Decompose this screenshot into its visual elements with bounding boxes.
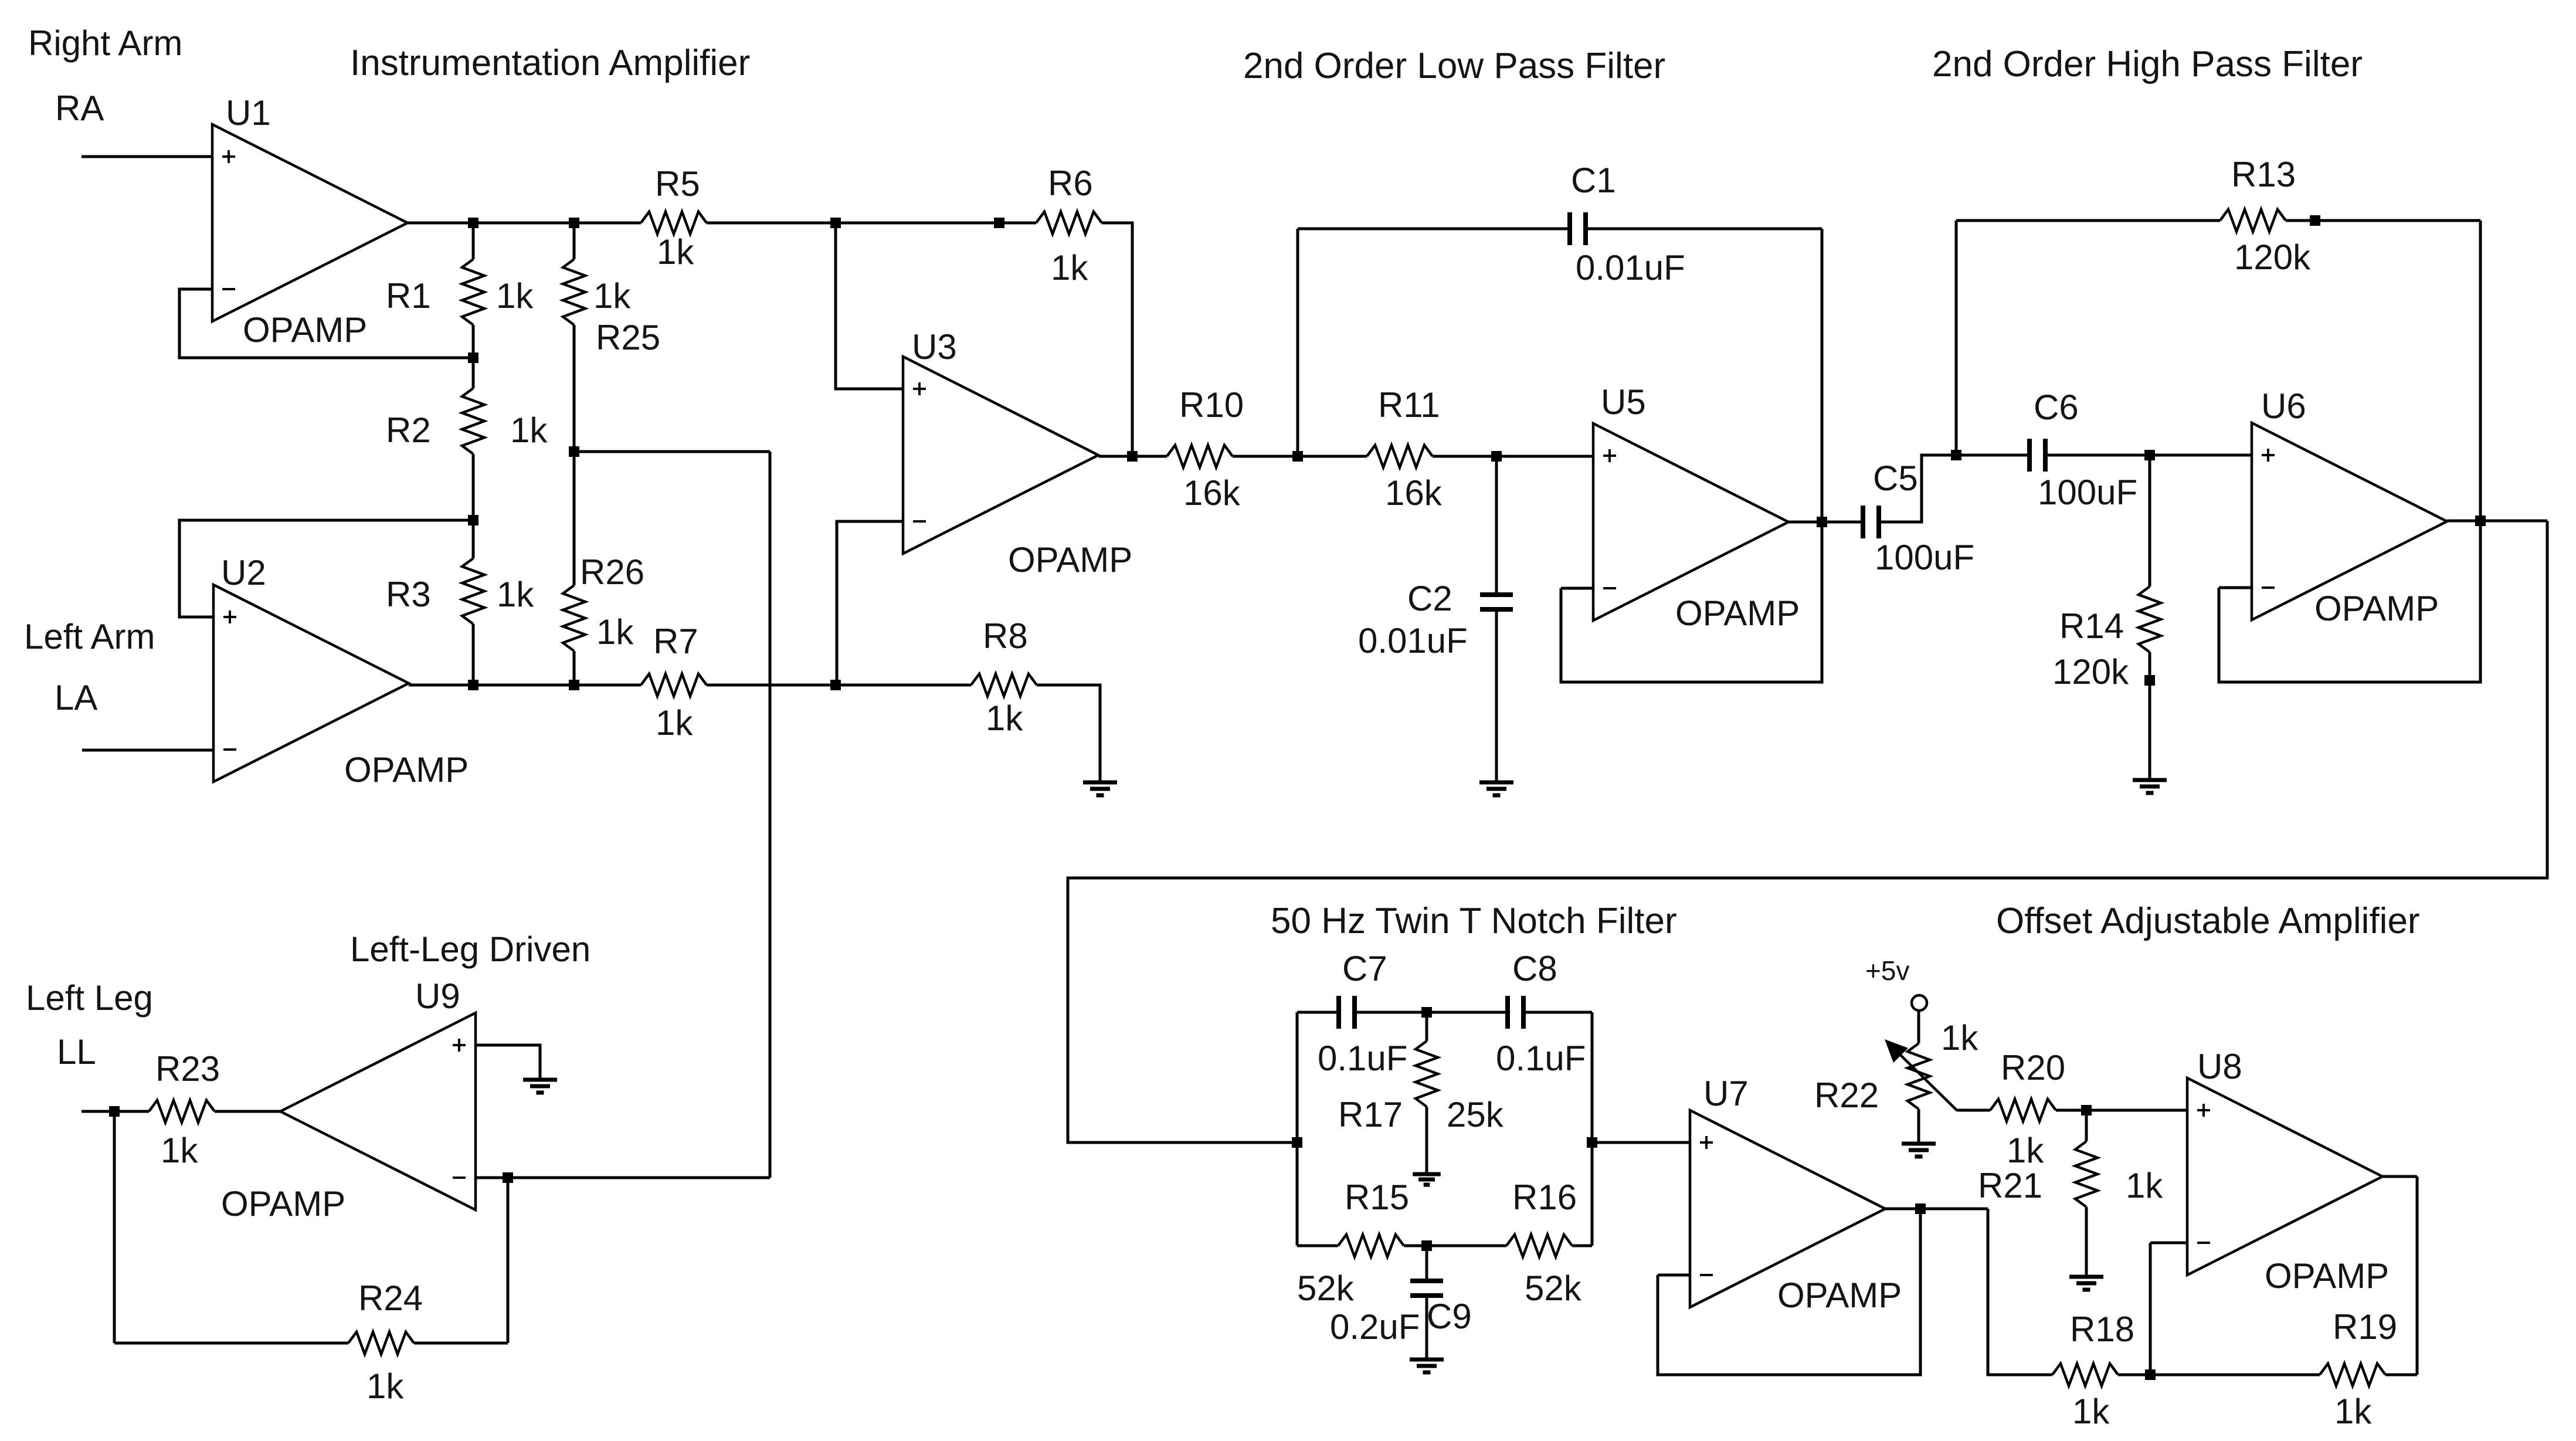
wire U8 output bbox=[2382, 1175, 2417, 1178]
svg-text:R26: R26 bbox=[580, 552, 644, 592]
junction LL / R24 branch bbox=[109, 1106, 120, 1117]
wire R20 to U8 bbox=[2056, 1109, 2187, 1112]
svg-text:1k: 1k bbox=[2007, 1131, 2044, 1170]
wire R22 wiper to R20 bbox=[1957, 1109, 1990, 1112]
wire U7 out down to R18 bbox=[1988, 1209, 2052, 1375]
junction R5/U3+ branch bbox=[830, 218, 841, 228]
wire R26 top stem bbox=[573, 452, 576, 585]
wire U2 plus feedback bbox=[179, 520, 473, 617]
wire R14 top stem bbox=[2149, 455, 2151, 586]
junction R1/R2 feedback bbox=[468, 352, 478, 363]
wire R22 to ground bbox=[1917, 1109, 1920, 1144]
wire U5 feedback bbox=[1561, 521, 1822, 682]
wire C9 stem top bbox=[1426, 1246, 1428, 1281]
svg-text:R7: R7 bbox=[653, 622, 698, 661]
svg-text:Left Leg: Left Leg bbox=[26, 978, 153, 1018]
wire U5 output bbox=[1788, 521, 1863, 524]
resistor R16 bbox=[1506, 1235, 1572, 1257]
svg-text:R24: R24 bbox=[358, 1279, 423, 1318]
svg-text:120k: 120k bbox=[2234, 238, 2311, 277]
svg-text:1k: 1k bbox=[1941, 1018, 1978, 1057]
resistor R11 bbox=[1367, 445, 1433, 467]
op-amp U6 bbox=[2252, 423, 2447, 620]
wire R10 to R11 bbox=[1233, 455, 1367, 458]
resistor R3 bbox=[462, 558, 484, 624]
ground R17 bbox=[1413, 1174, 1441, 1185]
svg-text:OPAMP: OPAMP bbox=[2265, 1256, 2389, 1296]
ground R21 bbox=[2069, 1277, 2103, 1290]
wire notch bottom right bbox=[1572, 1245, 1592, 1247]
wire U6 feedback bbox=[2219, 521, 2480, 682]
wire R15 to R16 bbox=[1404, 1245, 1506, 1247]
resistor R18 bbox=[2052, 1364, 2118, 1386]
resistor R13 bbox=[2220, 209, 2286, 232]
wire LL input bbox=[82, 1110, 149, 1113]
wire HPF out down bbox=[1068, 521, 2547, 1142]
svg-text:R14: R14 bbox=[2059, 606, 2124, 646]
svg-text:R11: R11 bbox=[1378, 385, 1440, 425]
svg-text:1k: 1k bbox=[596, 612, 634, 652]
resistor R25 bbox=[563, 259, 585, 325]
svg-text:52k: 52k bbox=[1297, 1269, 1355, 1308]
wire R19 right bbox=[2385, 1374, 2417, 1376]
svg-text:C5: C5 bbox=[1873, 459, 1918, 498]
svg-text:U3: U3 bbox=[912, 327, 957, 367]
junction C2 tap bbox=[1491, 451, 1502, 462]
wire +5v to R22 bbox=[1917, 1012, 1920, 1043]
svg-text:1k: 1k bbox=[657, 232, 694, 272]
wire R3 bottom stem bbox=[472, 624, 475, 685]
svg-text:R15: R15 bbox=[1345, 1178, 1409, 1217]
wire R13 right bbox=[2286, 219, 2480, 222]
wire R21 to ground bbox=[2085, 1207, 2088, 1277]
wire R1-R2 bbox=[472, 325, 475, 388]
resistor R8 bbox=[971, 674, 1037, 696]
svg-text:OPAMP: OPAMP bbox=[1675, 594, 1800, 633]
wire R24 row left bbox=[114, 1342, 348, 1345]
svg-text:OPAMP: OPAMP bbox=[2314, 589, 2439, 628]
svg-text:LL: LL bbox=[57, 1032, 96, 1072]
op-amp U5 bbox=[1593, 423, 1788, 621]
ground U9 plus bbox=[523, 1080, 557, 1093]
wire C5 to C6 row bbox=[1879, 455, 2029, 522]
svg-text:1k: 1k bbox=[1051, 248, 1088, 287]
svg-text:Left Arm: Left Arm bbox=[24, 617, 155, 656]
svg-text:1k: 1k bbox=[161, 1131, 198, 1170]
svg-text:50 Hz Twin T Notch Filter: 50 Hz Twin T Notch Filter bbox=[1271, 901, 1677, 941]
svg-text:0.1uF: 0.1uF bbox=[1318, 1039, 1407, 1078]
svg-text:1k: 1k bbox=[510, 411, 548, 450]
junction U1 out / R1 bbox=[468, 218, 478, 228]
resistor R24 bbox=[348, 1332, 414, 1354]
op-amp U8 bbox=[2187, 1078, 2382, 1275]
svg-text:0.01uF: 0.01uF bbox=[1358, 621, 1468, 660]
wire U3 plus input bbox=[836, 223, 903, 389]
junction U2 out / R3 bbox=[468, 680, 478, 690]
svg-text:16k: 16k bbox=[1385, 473, 1443, 513]
junction before R6 bbox=[994, 218, 1004, 228]
wire R26 bottom stem bbox=[573, 651, 576, 685]
junction notch output bbox=[1587, 1137, 1597, 1148]
svg-text:R5: R5 bbox=[655, 164, 700, 204]
capacitor C9 bbox=[1410, 1279, 1443, 1283]
svg-text:1k: 1k bbox=[496, 276, 534, 316]
wire U5 minus input bbox=[1561, 587, 1593, 590]
wire U8 minus input bbox=[2150, 1242, 2187, 1245]
svg-text:R3: R3 bbox=[386, 575, 431, 614]
wire C1 right vertical bbox=[1821, 229, 1824, 521]
svg-text:R22: R22 bbox=[1814, 1076, 1879, 1115]
wire R25 bottom stem bbox=[573, 325, 576, 452]
capacitor C7 bbox=[1336, 996, 1341, 1029]
wire R5 to R6 bbox=[707, 222, 1036, 225]
junction R14 tap bbox=[2144, 450, 2155, 460]
wire R2-R3 bbox=[472, 454, 475, 558]
resistor R10 bbox=[1167, 445, 1233, 467]
resistor R14 bbox=[2139, 586, 2161, 652]
svg-text:OPAMP: OPAMP bbox=[344, 750, 469, 789]
svg-text:0.2uF: 0.2uF bbox=[1330, 1307, 1420, 1347]
svg-text:Right Arm: Right Arm bbox=[28, 23, 182, 63]
wire R1 top stem bbox=[472, 223, 475, 259]
junction U6 out / R13 bbox=[2475, 516, 2486, 526]
wire R8 to ground bbox=[1037, 685, 1100, 782]
junction C9 tap bbox=[1421, 1240, 1432, 1251]
ground C9 bbox=[1410, 1359, 1444, 1372]
svg-text:1k: 1k bbox=[986, 699, 1023, 738]
svg-text:Instrumentation Amplifier: Instrumentation Amplifier bbox=[350, 43, 750, 83]
junction U1 out / R25 bbox=[569, 218, 579, 228]
wire R13 left bbox=[1956, 219, 2220, 222]
wire U1 output bbox=[408, 222, 641, 225]
wire U6 minus input bbox=[2219, 586, 2252, 589]
junction notch input bbox=[1292, 1137, 1302, 1148]
resistor R5 bbox=[641, 212, 707, 234]
potentiometer R22 bbox=[1908, 1043, 1930, 1109]
svg-text:U7: U7 bbox=[1703, 1074, 1749, 1113]
svg-text:1k: 1k bbox=[593, 276, 631, 316]
wire R17 top stem bbox=[1426, 1012, 1428, 1041]
svg-text:R8: R8 bbox=[983, 616, 1028, 656]
svg-text:0.1uF: 0.1uF bbox=[1496, 1039, 1586, 1078]
wire HPF left vertical bbox=[1955, 221, 1958, 455]
wire C2 stem bottom bbox=[1495, 609, 1498, 782]
wire U7 output bbox=[1885, 1208, 1988, 1211]
svg-text:C8: C8 bbox=[1512, 949, 1557, 988]
svg-text:100uF: 100uF bbox=[2038, 473, 2137, 512]
op-amp U2 bbox=[213, 585, 409, 782]
resistor R2 bbox=[462, 388, 484, 454]
resistor R21 bbox=[2075, 1141, 2098, 1207]
junction U5 out / C1 bbox=[1817, 517, 1827, 527]
wire notch out to U7 bbox=[1592, 1141, 1690, 1144]
junction U9 minus / R24 bbox=[503, 1172, 513, 1183]
svg-text:1k: 1k bbox=[656, 703, 693, 742]
wire U3 minus input bbox=[837, 521, 903, 685]
svg-text:U8: U8 bbox=[2197, 1047, 2242, 1086]
wire tap to long vertical bbox=[574, 450, 770, 453]
wire long vertical to U9 minus bbox=[769, 452, 772, 1178]
svg-text:1k: 1k bbox=[497, 575, 534, 614]
svg-text:R2: R2 bbox=[386, 411, 431, 450]
junction C1 loop left bbox=[1292, 451, 1303, 462]
wire U7 feedback bbox=[1658, 1209, 1920, 1375]
resistor R17 bbox=[1416, 1041, 1438, 1107]
resistor R6 bbox=[1036, 212, 1102, 234]
ground R8 bbox=[1083, 782, 1117, 795]
junction R2/R3 with U2+ feedback bbox=[468, 515, 478, 525]
svg-text:C1: C1 bbox=[1571, 161, 1616, 200]
svg-text:OPAMP: OPAMP bbox=[243, 310, 367, 350]
svg-text:RA: RA bbox=[55, 89, 104, 128]
svg-text:R17: R17 bbox=[1338, 1095, 1403, 1134]
junction R25/R26 tap bbox=[569, 446, 579, 457]
svg-text:R1: R1 bbox=[386, 276, 431, 316]
wire C2 stem top bbox=[1495, 456, 1498, 595]
capacitor C1 bbox=[1567, 212, 1572, 245]
wire R21 top stem bbox=[2085, 1110, 2088, 1141]
svg-text:OPAMP: OPAMP bbox=[1777, 1276, 1902, 1315]
junction below R14 bbox=[2144, 675, 2155, 686]
wire notch left side bbox=[1296, 1012, 1299, 1246]
wire notch bottom left bbox=[1297, 1245, 1338, 1247]
capacitor C2 bbox=[1480, 592, 1513, 597]
svg-text:U6: U6 bbox=[2261, 386, 2306, 426]
capacitor C8 bbox=[1505, 996, 1510, 1029]
wire C6 to U6 bbox=[2045, 454, 2252, 457]
svg-text:25k: 25k bbox=[1447, 1095, 1504, 1134]
junction U7 out / feedback bbox=[1915, 1203, 1926, 1214]
wire R14 bottom stem bbox=[2149, 652, 2151, 780]
wire C1 left vertical bbox=[1297, 229, 1299, 456]
wire R18 to R19 bbox=[2118, 1374, 2320, 1376]
wire LA input bbox=[82, 749, 213, 752]
junction R18/R19/U8 feedback bbox=[2145, 1369, 2156, 1380]
svg-text:R10: R10 bbox=[1179, 385, 1244, 425]
wire notch right side bbox=[1591, 1012, 1594, 1246]
svg-text:1k: 1k bbox=[2126, 1166, 2163, 1205]
ground R22 bbox=[1902, 1144, 1936, 1157]
wire R24 right vertical bbox=[507, 1178, 510, 1343]
svg-text:R13: R13 bbox=[2231, 155, 2296, 194]
junction U3 out / R6 feedback bbox=[1127, 451, 1138, 462]
svg-text:1k: 1k bbox=[366, 1367, 404, 1406]
svg-text:U2: U2 bbox=[221, 553, 266, 592]
wire U8 minus feedback bbox=[2149, 1243, 2152, 1375]
wire R23 to U9 bbox=[215, 1110, 280, 1113]
wire U9 plus to ground bbox=[476, 1045, 540, 1080]
svg-text:LA: LA bbox=[55, 678, 97, 717]
junction HPF left bbox=[1951, 450, 1961, 460]
resistor R26 bbox=[563, 585, 585, 651]
svg-text:C6: C6 bbox=[2034, 388, 2079, 427]
resistor R19 bbox=[2320, 1364, 2385, 1386]
svg-text:Left-Leg Driven: Left-Leg Driven bbox=[350, 930, 590, 969]
op-amp U1 bbox=[212, 124, 408, 321]
svg-text:R19: R19 bbox=[2333, 1307, 2397, 1347]
capacitor C5 bbox=[1861, 506, 1865, 538]
ground R14 bbox=[2133, 780, 2167, 793]
svg-text:R20: R20 bbox=[2001, 1048, 2065, 1087]
wire RA input bbox=[82, 155, 212, 158]
svg-text:+5v: +5v bbox=[1865, 955, 1909, 986]
svg-text:120k: 120k bbox=[2052, 652, 2129, 691]
svg-text:C2: C2 bbox=[1407, 579, 1452, 618]
svg-text:52k: 52k bbox=[1525, 1269, 1582, 1308]
svg-text:100uF: 100uF bbox=[1875, 538, 1974, 577]
svg-text:2nd Order High Pass Filter: 2nd Order High Pass Filter bbox=[1932, 44, 2363, 84]
wire C7 to C8 bbox=[1355, 1011, 1508, 1014]
wire U9 minus bbox=[476, 1176, 770, 1179]
op-amp U7 bbox=[1690, 1110, 1885, 1307]
op-amp U3 bbox=[903, 357, 1098, 554]
wire C1 top right bbox=[1586, 228, 1822, 230]
resistor R15 bbox=[1338, 1235, 1404, 1257]
wire U2 output bbox=[409, 684, 641, 687]
svg-text:OPAMP: OPAMP bbox=[1008, 540, 1132, 579]
wire R6 to U3 output bbox=[1102, 223, 1132, 456]
svg-text:C7: C7 bbox=[1342, 949, 1387, 988]
svg-text:R6: R6 bbox=[1048, 164, 1093, 203]
ground C2 bbox=[1479, 782, 1513, 795]
resistor R20 bbox=[1990, 1099, 2056, 1121]
svg-text:R21: R21 bbox=[1978, 1166, 2042, 1205]
junction R7 / U3 minus branch bbox=[830, 680, 841, 690]
wire U6 output bbox=[2447, 520, 2547, 523]
svg-text:1k: 1k bbox=[2072, 1392, 2110, 1431]
resistor R1 bbox=[462, 259, 484, 325]
op-amp U9 bbox=[280, 1013, 476, 1210]
resistor R7 bbox=[641, 674, 707, 696]
wire U3 output bbox=[1098, 455, 1167, 458]
svg-text:16k: 16k bbox=[1183, 473, 1241, 513]
svg-text:OPAMP: OPAMP bbox=[221, 1184, 345, 1223]
resistor R23 bbox=[149, 1100, 215, 1123]
wire U8 out down to R19 bbox=[2416, 1176, 2419, 1375]
svg-text:R18: R18 bbox=[2070, 1310, 2134, 1349]
svg-text:U9: U9 bbox=[415, 977, 460, 1016]
svg-text:1k: 1k bbox=[2334, 1392, 2372, 1431]
wire notch top left bbox=[1297, 1011, 1339, 1014]
wire R24 left vertical bbox=[113, 1111, 116, 1343]
wire R24 row right bbox=[414, 1342, 508, 1345]
wire U1 feedback bbox=[179, 289, 473, 358]
wire HPF right vertical bbox=[2479, 221, 2482, 521]
junction R13 right bbox=[2310, 215, 2320, 226]
svg-text:R16: R16 bbox=[1512, 1178, 1577, 1217]
svg-text:R25: R25 bbox=[596, 318, 660, 357]
svg-text:C9: C9 bbox=[1427, 1297, 1472, 1336]
junction R17 top bbox=[1421, 1007, 1432, 1018]
junction R21 tap bbox=[2081, 1105, 2092, 1115]
wire R7 to R8 bbox=[707, 684, 971, 687]
wire U7 minus input bbox=[1658, 1274, 1690, 1277]
svg-text:U5: U5 bbox=[1601, 382, 1646, 422]
wire R25 top stem bbox=[573, 223, 576, 259]
svg-text:2nd Order Low Pass Filter: 2nd Order Low Pass Filter bbox=[1243, 46, 1665, 86]
wire R11 to U5 bbox=[1433, 455, 1593, 458]
svg-text:Offset Adjustable Amplifier: Offset Adjustable Amplifier bbox=[1996, 901, 2420, 941]
svg-text:0.01uF: 0.01uF bbox=[1576, 248, 1685, 287]
capacitor C6 bbox=[2027, 439, 2032, 472]
wire notch top right bbox=[1523, 1011, 1592, 1014]
junction U2 out / R26 bbox=[569, 680, 579, 690]
wire C1 top left bbox=[1298, 228, 1570, 230]
svg-text:R23: R23 bbox=[155, 1049, 220, 1089]
svg-text:U1: U1 bbox=[226, 93, 271, 133]
wire C9 stem bottom bbox=[1426, 1296, 1428, 1359]
wire R17 to ground bbox=[1426, 1107, 1428, 1174]
